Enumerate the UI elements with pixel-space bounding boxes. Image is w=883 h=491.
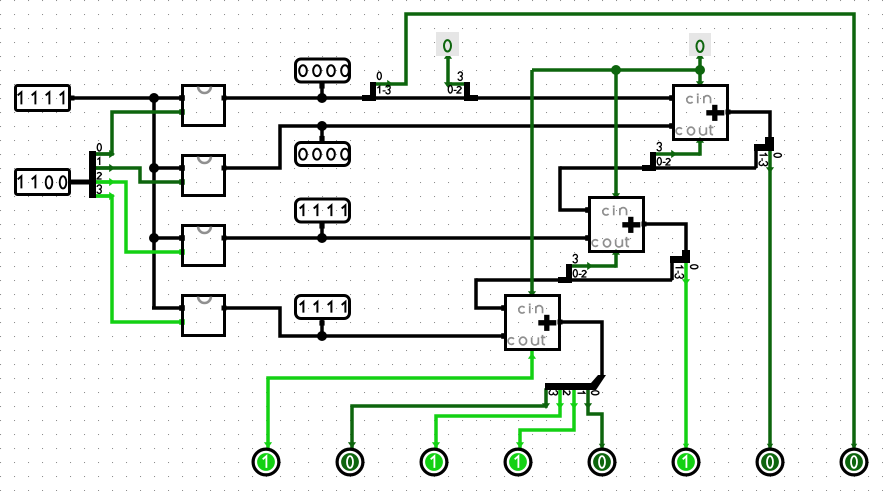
probe P2 value 0000	[296, 136, 350, 166]
wire adder U5 carry-out to splitter SP3v leg	[656, 137, 704, 158]
wire splitter SP1 leg2 to gate U3 input b	[96, 178, 185, 255]
gate U3 (subcircuit)	[183, 226, 225, 266]
constant K1 value 0	[436, 32, 459, 56]
splitter SP5 bit0 / bits1-3 vertical	[754, 137, 781, 166]
splitter SP3 bit3 / bits0-2	[448, 72, 478, 101]
output pin Q2 value 0	[337, 449, 363, 475]
wire splitter SP5 bit0 to output pin Q7	[766, 151, 774, 449]
wire splitter SP1 leg1 to gate U2 input b	[96, 164, 185, 185]
junction probe P1 tap	[317, 93, 327, 103]
wire constant K2 to adder U5 carry-in	[696, 53, 704, 87]
wire bus adder U7 output to splitter SP7	[558, 320, 603, 377]
wire bus gate U3 output to adder U6 input b	[222, 235, 591, 241]
splitter SP1 1x4 fan-out	[89, 144, 112, 198]
junction trunk gate U2 tap	[149, 163, 159, 173]
wire constant K1 to splitter SP3 leg 3	[444, 53, 464, 88]
output pin Q7 value 0	[757, 449, 783, 475]
wire bus gate U4 output to adder U7 input b	[222, 306, 507, 339]
wire probe P2 stub	[320, 126, 324, 141]
input pin IN_B value 1100	[16, 170, 70, 195]
input pin IN_A value 1111	[16, 86, 70, 111]
junction probe P2 tap	[317, 121, 327, 131]
wire trunk to gate U4 input a	[152, 305, 185, 311]
splitter SP2 bit0 / bits1-3	[362, 72, 390, 101]
wire bus y=168 down to adder U6 input a	[560, 168, 591, 213]
wire trunk to gate U2 input a	[154, 165, 185, 171]
wire bus from input A to gate U1 input a	[70, 95, 185, 101]
gate U1 (subcircuit)	[183, 86, 225, 126]
probe P3 value 1111	[296, 199, 350, 229]
wire splitter SP7 bit3 to output pin Q2	[348, 390, 550, 448]
junction on bus y=98 at trunk	[149, 93, 159, 103]
wire carry rail down to adder U6 carry-in	[612, 70, 620, 199]
output pin Q6 value 1	[673, 449, 699, 475]
op-amp U5 adder with carry (c in / c out / +)	[674, 86, 728, 140]
probe P4 value 1111	[296, 296, 350, 326]
wire adder U6 carry-out to splitter SP4v leg	[572, 249, 620, 270]
wire input B stub to splitter SP1	[70, 180, 91, 185]
probe P1 value 0000	[296, 59, 350, 89]
wire splitter SP6 bit0 to output pin Q6	[682, 263, 690, 449]
wire bus vertical trunk x=154 feeding gates U2-U4	[152, 96, 156, 308]
wire splitter SP7 bit0 to output pin Q5	[584, 390, 605, 449]
wire splitter SP1 leg0 to gate U1 input b	[96, 109, 185, 158]
output pin Q1 value 1	[253, 449, 279, 475]
splitter SP4v below adder U6 bit3 / bits0-2	[558, 254, 586, 283]
wire bus y=280 down to adder U7 input a	[476, 280, 507, 311]
op-amp U6 adder with carry (c in / c out / +)	[590, 198, 644, 252]
output pin Q3 value 1	[421, 449, 447, 475]
output pin Q5 value 0	[589, 449, 615, 475]
wire bus adder U5 output to splitter SP5	[726, 110, 771, 140]
wire bit0 net from splitter SP2 leg to top rail and output pin Q8	[376, 14, 857, 449]
splitter SP7 4-bit fan-out to pins	[545, 375, 606, 395]
junction carry rail at U6 branch	[611, 65, 621, 75]
wire trunk to gate U3 input a	[154, 235, 185, 241]
wire splitter SP7 bit2 to output pin Q3	[432, 390, 564, 448]
wire probe P1 stub	[320, 83, 324, 98]
wire probe P3 stub	[320, 223, 324, 238]
junction probe P4 tap	[317, 331, 327, 341]
output pin Q8 value 0	[841, 449, 867, 475]
splitter SP6 bit0 / bits1-3 vertical	[670, 250, 698, 278]
wire carry rail y=70	[532, 68, 700, 72]
wire carry rail down to adder U7 carry-in	[528, 70, 536, 297]
wire bus adder U6 output to splitter SP6	[642, 222, 687, 251]
junction trunk gate U3 tap	[149, 233, 159, 243]
wire bus splitter SP6 high bits to splitter SP4 on y=280	[476, 261, 672, 280]
wire probe P4 stub	[320, 319, 324, 336]
wire bus splitter SP5 high bits to splitter SP3 on y=168	[560, 148, 756, 168]
splitter SP3v below adder U5 bit3 / bits0-2	[642, 142, 670, 171]
op-amp U7 adder with carry (c in / c out / +)	[506, 296, 560, 350]
constant K2 value 0	[689, 33, 711, 56]
output pin Q4 value 1	[505, 449, 531, 475]
gate U4 (subcircuit)	[183, 296, 225, 336]
junction carry rail at constant K2	[695, 65, 705, 75]
wire splitter SP1 leg3 to gate U4 input b	[96, 192, 185, 325]
wire splitter SP7 bit1 to output pin Q4	[516, 390, 578, 448]
gate U2 (subcircuit)	[183, 156, 225, 196]
junction probe P3 tap	[317, 233, 327, 243]
wire bus gate U1 output to adder U5 input a	[222, 95, 675, 101]
wire bus gate U2 output to adder U5 input b	[222, 123, 675, 170]
wire adder U7 carry-out to output pin Q1	[264, 350, 536, 448]
